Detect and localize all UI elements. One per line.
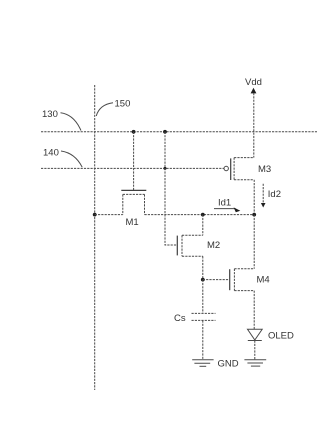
wire: node B to M4 gate <box>203 279 228 281</box>
transistor M2 <box>177 235 220 256</box>
current label Id2 with arrow <box>261 184 281 208</box>
svg-text:GND: GND <box>218 359 239 370</box>
Vdd power terminal <box>245 77 262 93</box>
label 130 <box>42 109 81 131</box>
svg-text:M2: M2 <box>207 240 220 251</box>
node A right junction dot <box>252 213 256 217</box>
svg-text:Cs: Cs <box>174 313 186 324</box>
wire: M3 source to node A <box>253 180 255 215</box>
wire: data line 140 <box>41 167 224 169</box>
wire: scan line 130 <box>41 131 317 133</box>
svg-text:M1: M1 <box>126 217 139 228</box>
label 140 <box>43 148 82 168</box>
svg-text:150: 150 <box>115 99 131 110</box>
wire: Vdd to M3 drain <box>253 93 255 158</box>
svg-text:M3: M3 <box>258 164 271 175</box>
transistor M1 <box>121 190 146 228</box>
svg-text:140: 140 <box>43 148 59 159</box>
svg-text:M4: M4 <box>257 275 270 286</box>
wire: OLED cathode to ground <box>254 341 256 360</box>
node: line130 to M1 gate junction <box>132 130 136 134</box>
wire: line130 down to M2 gate <box>165 132 176 245</box>
wire: M1 gate lead <box>133 132 135 191</box>
svg-text:130: 130 <box>42 109 58 120</box>
wire: M2 source to node B <box>202 256 204 279</box>
wire: line150 to M1 source <box>95 214 123 216</box>
node A junction dot <box>201 213 205 217</box>
wire: node A down to M4 drain <box>253 215 255 269</box>
wire: M1 drain to node A <box>145 214 255 216</box>
wire: M4 source to OLED anode <box>253 291 255 330</box>
node: line150 to M1 wire junction <box>93 213 97 217</box>
transistor M4 <box>230 269 270 291</box>
diode OLED <box>248 329 295 341</box>
node B junction dot <box>201 278 205 282</box>
transistor M3 <box>224 158 271 180</box>
label 150 <box>96 99 130 117</box>
svg-text:Vdd: Vdd <box>245 77 262 88</box>
wire: Cs to ground <box>202 320 204 359</box>
current label Id1 with arrow <box>214 198 240 213</box>
node: line140 crossing dot <box>164 167 167 170</box>
svg-text:OLED: OLED <box>268 331 294 342</box>
wire: node A to M2 drain <box>202 215 204 236</box>
ground under OLED <box>244 360 266 366</box>
label GND <box>218 359 239 370</box>
capacitor Cs <box>174 313 216 324</box>
svg-text:Id1: Id1 <box>218 198 231 209</box>
ground under Cs <box>192 360 213 367</box>
svg-text:Id2: Id2 <box>268 189 281 200</box>
node: line130 to M2 gate junction <box>163 130 167 134</box>
wire: node B down to Cs <box>202 280 204 314</box>
wire: vertical line 150 <box>94 85 96 390</box>
